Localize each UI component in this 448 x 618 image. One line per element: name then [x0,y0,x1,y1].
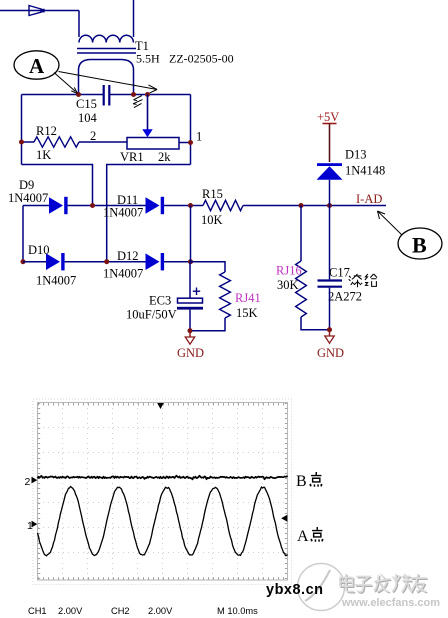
node junction RJ16 tap [299,203,304,208]
wire DC+ vertical D11 to D12 row [190,206,192,262]
wire RJ41 bottom [190,318,225,331]
wire EC3 top lead [189,262,191,298]
svg-text:R12: R12 [36,124,57,138]
wire D11 cathode to R15 [164,205,203,207]
transformer T1 primary coil [79,35,133,42]
node junction GND2 [327,327,332,332]
wire D9 row left stub [23,205,49,207]
node junction VR1 pin1 right edge [188,140,193,145]
transformer T1 core [77,49,136,54]
wire box bottom-right segment [107,165,191,262]
EC3 plus sign [193,288,200,296]
wire RJ16 bottom [301,317,330,330]
svg-text:C17: C17 [329,266,350,280]
resistor RJ16 [296,261,307,317]
svg-text:I-AD: I-AD [356,192,382,206]
wire left vertical D9-D10 [22,206,24,262]
wire R12 to VR1 [79,141,127,143]
node junction wiper column on bus [145,92,150,97]
svg-text:C15: C15 [76,97,97,111]
capacitor EC3 [178,298,203,303]
svg-text:R15: R15 [202,187,223,201]
svg-text:VR1: VR1 [120,150,144,164]
right trigger level marker [281,515,287,522]
svg-text:D9: D9 [19,178,34,192]
wire D13 anode to bus [329,180,331,206]
graticule gridlines and ticks (decorative) [62,403,64,580]
svg-text:2: 2 [90,129,96,143]
glyph dian for B [311,472,321,482]
node junction D13-C17 tap [327,203,332,208]
watermark logo circle [298,564,345,611]
svg-text:M 10.0ms: M 10.0ms [217,606,258,616]
power +5V bar [323,123,337,125]
svg-text:10uF/50V: 10uF/50V [126,308,177,322]
wire box left edge [21,95,23,165]
svg-text:2.00V: 2.00V [58,606,83,616]
svg-text:D12: D12 [117,249,139,263]
svg-text:ybx8.cn: ybx8.cn [266,582,324,598]
wire D10 row left stub [23,261,46,263]
wire C17 bottom lead [329,288,331,330]
svg-text:B: B [412,233,427,258]
resistor RJ41 [220,272,231,318]
wire RJ16 top lead [300,206,302,262]
svg-text:1N4007: 1N4007 [8,191,48,205]
resistor R12 [34,137,79,147]
annotation arrow B to I-AD [378,211,403,235]
trigger position marker [157,403,164,409]
svg-text:1N4007: 1N4007 [36,274,76,288]
svg-text:B: B [296,473,307,490]
node junction D12 output [188,259,193,264]
label C17 dielectric type (Chinese) [349,276,353,285]
waveform B flat trace [38,476,288,480]
annotation arrow A long to wiper node [59,72,158,90]
node junction GND1 [188,328,193,333]
ground GND2 symbol [329,330,331,336]
potentiometer VR1 body [127,138,179,150]
svg-text:CH1: CH1 [28,606,47,616]
ground GND1 symbol [189,331,191,337]
wire top bus right segment [110,94,191,96]
svg-text:A: A [297,528,309,545]
wire C17 top lead [329,206,331,280]
svg-text:2: 2 [25,476,31,488]
svg-text:+5V: +5V [317,110,339,124]
wire box right edge [190,95,192,165]
node junction transformer left on bus [76,92,81,97]
annotation squiggle at node [133,96,143,108]
svg-text:1N4007: 1N4007 [103,267,143,281]
svg-text:15K: 15K [236,306,258,320]
svg-text:RJ41: RJ41 [235,291,261,305]
oscilloscope graticule frame [38,403,288,581]
svg-text:30K: 30K [277,278,299,292]
svg-text:1N4007: 1N4007 [103,206,143,220]
wire primary right lead [133,0,135,37]
glyph dian for A [312,527,322,537]
wire D9 cathode to D11 anode [68,205,146,207]
diode D12 [146,253,160,270]
svg-text:EC3: EC3 [149,294,171,308]
svg-text:2A272: 2A272 [328,290,362,304]
diode D13 [317,163,342,166]
scope readout CH1 [28,606,258,616]
svg-text:104: 104 [78,111,98,125]
annotation ellipse B [398,228,442,259]
svg-text:www.elecfans.com: www.elecfans.com [341,597,440,609]
wire left edge to R12 [22,141,35,143]
diode D11 [146,197,160,214]
capacitor C17 [318,281,343,287]
node junction D10 anode [21,259,26,264]
capacitor C15 [104,85,110,106]
annotation arrow A to C15 node [54,73,76,92]
svg-text:5.5H: 5.5H [136,52,160,66]
svg-text:GND: GND [317,346,344,360]
wire top bus left segment [22,94,104,96]
node junction D11 output [188,203,193,208]
svg-text:1: 1 [196,130,202,144]
svg-text:D13: D13 [345,148,367,162]
diode D9 [49,197,63,214]
svg-text:A: A [29,54,45,78]
label A point [297,528,309,545]
wire box bottom-left segment [22,165,93,206]
svg-text:ZZ-02505-00: ZZ-02505-00 [169,52,234,66]
svg-text:2.00V: 2.00V [148,606,173,616]
wire VR1 wiper column [147,95,149,130]
wire primary left lead [78,11,80,38]
diode D10 [46,253,60,270]
waveform A sine trace [38,486,288,555]
node junction D10-D12 AC input [104,259,109,264]
svg-text:10K: 10K [201,213,223,227]
wire D10 cathode to D12 anode [65,261,146,263]
resistor R15 [203,200,243,210]
wire node to RJ41 branch [191,262,226,272]
svg-text:2k: 2k [158,150,171,164]
svg-text:1K: 1K [36,148,51,162]
input probe symbol [29,6,45,16]
svg-text:1N4148: 1N4148 [345,164,385,178]
node junction transformer right on bus [131,92,136,97]
VR1 wiper arrow [142,129,152,137]
wire R15 to I-AD [243,205,386,207]
transformer T1 secondary winding [79,60,134,95]
watermark site name (Chinese) [341,576,427,593]
annotation ellipse A [14,51,59,79]
node junction D9-D11 AC input [90,203,95,208]
wire D12 cathode to node [164,261,190,263]
node junction R12 left edge [19,140,24,145]
svg-text:CH2: CH2 [111,606,130,616]
svg-text:GND: GND [177,346,204,360]
wire input horizontal top-left [0,10,79,12]
label B point [296,473,307,490]
wire +5V to D13 [329,124,331,163]
wire VR1 to right edge [179,142,191,144]
wire EC3 bottom lead [189,310,191,331]
oscilloscope outer dotted frame [33,399,292,585]
svg-text:RJ16: RJ16 [276,264,302,278]
svg-text:D10: D10 [28,243,50,257]
